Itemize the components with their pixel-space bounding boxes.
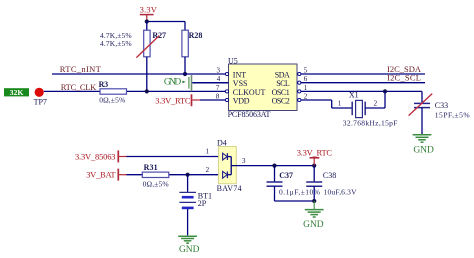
ground symbol at C33 xyxy=(413,135,434,156)
svg-text:VDD: VDD xyxy=(233,96,250,105)
svg-text:SCL: SCL xyxy=(276,79,290,88)
DNP slash on C33 xyxy=(409,94,433,116)
svg-text:32.768kHz,15pF: 32.768kHz,15pF xyxy=(343,118,398,127)
pin 2 (OSC2) wire to crystal xyxy=(298,92,353,108)
junction dot C38/3.3V_RTC xyxy=(312,164,316,168)
svg-text:C38: C38 xyxy=(323,171,336,180)
capacitor C33 xyxy=(414,91,470,134)
wire 3.3V rail to R28 xyxy=(147,22,185,31)
power port GND at pin 4 xyxy=(164,75,192,91)
svg-text:4.7K,±5%: 4.7K,±5% xyxy=(100,39,132,48)
sheet entry 32K xyxy=(4,88,29,97)
wire D4 pin 3 to 3.3V_RTC xyxy=(231,157,314,166)
ground symbol at BT1 xyxy=(178,236,199,255)
pin 4 (VSS) xyxy=(192,75,228,83)
svg-text:RTC_CLK: RTC_CLK xyxy=(61,82,97,92)
svg-text:32K: 32K xyxy=(10,88,24,97)
svg-text:R31: R31 xyxy=(144,163,158,172)
svg-text:2: 2 xyxy=(304,92,308,100)
wire RTC_nINT xyxy=(52,73,226,75)
svg-text:RTC_nINT: RTC_nINT xyxy=(60,64,102,74)
svg-text:1: 1 xyxy=(304,84,308,92)
svg-text:C37: C37 xyxy=(279,171,293,180)
resistor R27 xyxy=(144,22,166,92)
svg-text:6: 6 xyxy=(304,75,308,83)
svg-text:GND: GND xyxy=(413,146,434,156)
svg-text:R3: R3 xyxy=(99,80,109,89)
test point TP7 xyxy=(34,88,47,107)
svg-text:0Ω,±5%: 0Ω,±5% xyxy=(143,179,169,188)
DNP slash on R27 xyxy=(136,36,159,58)
resistor R3 xyxy=(99,80,127,105)
svg-text:3: 3 xyxy=(242,157,246,165)
wire 3.3V_85063 to D4 pin 1 xyxy=(127,156,223,158)
svg-text:U5: U5 xyxy=(228,56,238,65)
svg-text:I2C_SCL: I2C_SCL xyxy=(387,73,421,83)
power port 3.3V xyxy=(140,5,158,22)
svg-text:X1: X1 xyxy=(349,91,359,100)
pin 3 (INT) xyxy=(217,66,229,75)
svg-text:3.3V_RTC: 3.3V_RTC xyxy=(297,147,333,157)
capacitor C38 xyxy=(306,166,357,201)
svg-text:GND: GND xyxy=(164,78,182,88)
svg-text:3.3V_RTC: 3.3V_RTC xyxy=(155,95,191,105)
junction dot BT1 on 3V_BAT wire xyxy=(186,173,190,177)
svg-text:GND: GND xyxy=(303,220,324,230)
svg-text:3: 3 xyxy=(217,66,221,74)
svg-text:2: 2 xyxy=(206,166,210,174)
power port 3.3V_RTC (bottom) xyxy=(297,147,333,165)
svg-text:1: 1 xyxy=(338,99,342,107)
svg-text:0Ω,±5%: 0Ω,±5% xyxy=(99,95,125,104)
junction dot C37 xyxy=(272,164,276,168)
svg-text:VSS: VSS xyxy=(233,79,248,88)
wire cap bottoms rail xyxy=(275,200,315,202)
battery BT1 xyxy=(179,175,212,236)
junction dot GND rail xyxy=(312,199,316,203)
svg-text:GND: GND xyxy=(179,245,200,255)
svg-text:3V_BAT: 3V_BAT xyxy=(86,170,116,180)
pin 8 (VDD) xyxy=(200,92,229,101)
power port 3.3V_RTC at pin 8 xyxy=(155,94,200,106)
svg-text:TP7: TP7 xyxy=(34,98,47,107)
junction dot OSC1/crystal xyxy=(383,89,387,93)
svg-text:PCF85063AT: PCF85063AT xyxy=(228,110,271,119)
pin 1 (OSC1) wire xyxy=(298,84,422,93)
svg-text:3.3V_85063: 3.3V_85063 xyxy=(75,151,116,161)
pin 6 (SCL) wire I2C_SCL xyxy=(298,75,425,84)
wire crystal to OSC1 xyxy=(365,91,385,108)
svg-text:4: 4 xyxy=(217,75,221,83)
svg-text:SDA: SDA xyxy=(275,70,290,79)
svg-text:R28: R28 xyxy=(189,31,203,40)
svg-text:OSC2: OSC2 xyxy=(272,96,290,105)
svg-text:INT: INT xyxy=(233,70,246,79)
svg-text:BAV74: BAV74 xyxy=(217,184,242,193)
svg-text:C33: C33 xyxy=(435,101,448,110)
svg-text:10uF,6.3V: 10uF,6.3V xyxy=(324,187,358,196)
diode D4b xyxy=(223,171,232,178)
svg-text:1: 1 xyxy=(206,148,210,156)
svg-text:7: 7 xyxy=(216,84,220,92)
IC U5 PCF85063AT xyxy=(228,56,297,119)
wire RTC_CLK xyxy=(44,90,226,92)
capacitor C37 xyxy=(267,166,321,201)
resistor R31 xyxy=(142,163,169,188)
svg-text:5: 5 xyxy=(304,66,308,74)
diode D4a xyxy=(223,153,232,160)
svg-text:3.3V: 3.3V xyxy=(140,5,158,15)
junction dot 3.3V/R27 xyxy=(145,19,149,23)
junction dot R28 on RTC_nINT wire xyxy=(183,72,187,76)
power port 3V_BAT xyxy=(86,169,126,181)
wire 3V_BAT to D4 pin 2 xyxy=(127,174,223,176)
svg-text:15PF,±5%: 15PF,±5% xyxy=(435,110,470,119)
power port 3.3V_85063 xyxy=(75,150,127,162)
wire D4 common cathode xyxy=(230,157,232,175)
dual diode D4 BAV74 xyxy=(217,138,242,192)
crystal X1 xyxy=(338,91,398,128)
svg-text:8: 8 xyxy=(216,92,220,100)
junction dot R27 on RTC_CLK wire xyxy=(145,89,149,93)
svg-text:2: 2 xyxy=(374,99,378,107)
pin 7 (CLKOUT) xyxy=(216,84,229,93)
ground symbol at C37/C38 xyxy=(303,201,324,230)
svg-text:D4: D4 xyxy=(217,138,227,147)
resistor R28 xyxy=(182,30,203,74)
svg-text:2P: 2P xyxy=(198,199,207,208)
pin 5 (SDA) wire I2C_SDA xyxy=(298,66,425,75)
